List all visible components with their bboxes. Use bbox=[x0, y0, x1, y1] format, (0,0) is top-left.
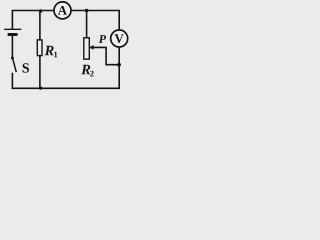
voltmeter circle bbox=[111, 30, 128, 47]
wire: left edge below switch + bottom rail + right edge below voltmeter bbox=[12, 47, 119, 88]
rheostat R2 label subscript 2 bbox=[90, 71, 94, 77]
voltmeter letter V bbox=[115, 34, 124, 43]
ammeter letter A bbox=[58, 6, 67, 15]
switch upper contact dot bbox=[11, 57, 14, 60]
battery negative plate (short thick) bbox=[9, 33, 16, 36]
node: top rail / R2 branch bbox=[85, 9, 89, 13]
wire: R1 branch upper bbox=[39, 11, 41, 41]
node: bottom rail / R1 branch bbox=[39, 87, 42, 90]
rheostat R2 body bbox=[84, 38, 90, 59]
rheostat R2 label R bbox=[81, 65, 90, 74]
ammeter circle bbox=[54, 2, 71, 19]
resistor R1 label subscript 1 bbox=[54, 52, 57, 58]
paper background bbox=[0, 0, 132, 99]
wiper arrowhead pointing at R2 bbox=[89, 45, 94, 50]
resistor R1 body bbox=[37, 40, 42, 56]
node: right edge / wiper bbox=[117, 63, 121, 67]
wire: top rail left + left edge down to battery bbox=[12, 11, 56, 29]
wire: wiper to right-edge junction bbox=[93, 47, 119, 64]
wire: top rail right + right edge down to voltmeter bbox=[71, 11, 119, 31]
wire: R1 branch lower bbox=[39, 56, 41, 89]
wire: R2 branch upper bbox=[86, 11, 88, 38]
switch label S bbox=[23, 63, 29, 72]
wire: battery to switch bbox=[11, 35, 13, 57]
wiper label P bbox=[99, 35, 106, 43]
node: top rail / R1 branch bbox=[39, 9, 43, 13]
resistor R1 label R bbox=[45, 46, 54, 55]
switch S blade bbox=[13, 58, 17, 71]
battery positive plate (long) bbox=[5, 28, 21, 30]
